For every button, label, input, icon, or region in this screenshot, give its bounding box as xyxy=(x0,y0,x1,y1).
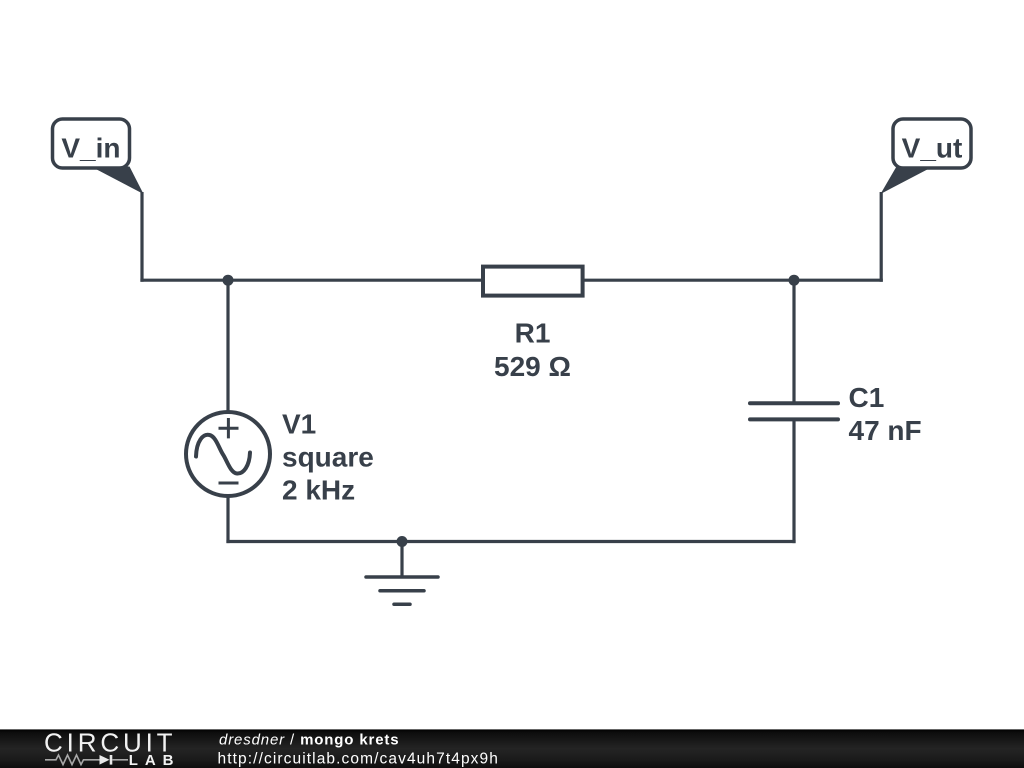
svg-text:529 Ω: 529 Ω xyxy=(494,351,571,382)
resistor R1 xyxy=(483,267,583,296)
svg-text:47 nF: 47 nF xyxy=(849,415,922,446)
svg-text:R1: R1 xyxy=(515,317,551,348)
svg-text:http://circuitlab.com/cav4uh7t: http://circuitlab.com/cav4uh7t4px9h xyxy=(218,750,499,767)
wire V1 top lead xyxy=(226,279,229,412)
voltage source V1 xyxy=(186,412,270,496)
svg-text:LAB: LAB xyxy=(129,752,181,768)
node junction GND xyxy=(397,536,408,547)
footer title text xyxy=(219,732,399,749)
label R1 value xyxy=(494,317,571,382)
net flag V_ut xyxy=(881,119,972,194)
node junction B xyxy=(789,275,800,286)
svg-text:V_ut: V_ut xyxy=(902,133,963,164)
label V1 value xyxy=(282,409,374,506)
footer url text xyxy=(218,750,499,767)
svg-text:C1: C1 xyxy=(849,382,885,413)
wire C1 bottom lead xyxy=(792,419,795,543)
svg-text:square: square xyxy=(282,442,374,473)
wire V_in lead xyxy=(140,192,143,282)
wire top rail left xyxy=(140,279,483,282)
footer bar xyxy=(0,729,1024,768)
svg-text:2 kHz: 2 kHz xyxy=(282,475,355,506)
wire bottom rail xyxy=(226,540,795,543)
capacitor C1 xyxy=(750,403,838,419)
wire V_ut lead xyxy=(880,192,883,282)
label C1 value xyxy=(849,382,922,446)
wire C1 top lead xyxy=(792,279,795,404)
node junction A xyxy=(223,275,234,286)
svg-text:dresdner / mongo krets: dresdner / mongo krets xyxy=(219,732,399,749)
wire V1 bottom lead xyxy=(226,496,229,543)
CircuitLab logo xyxy=(44,728,181,768)
ground xyxy=(366,542,438,605)
svg-text:V_in: V_in xyxy=(61,133,120,164)
net flag V_in xyxy=(53,119,144,194)
wire top rail right xyxy=(583,279,883,282)
svg-text:V1: V1 xyxy=(282,409,316,440)
